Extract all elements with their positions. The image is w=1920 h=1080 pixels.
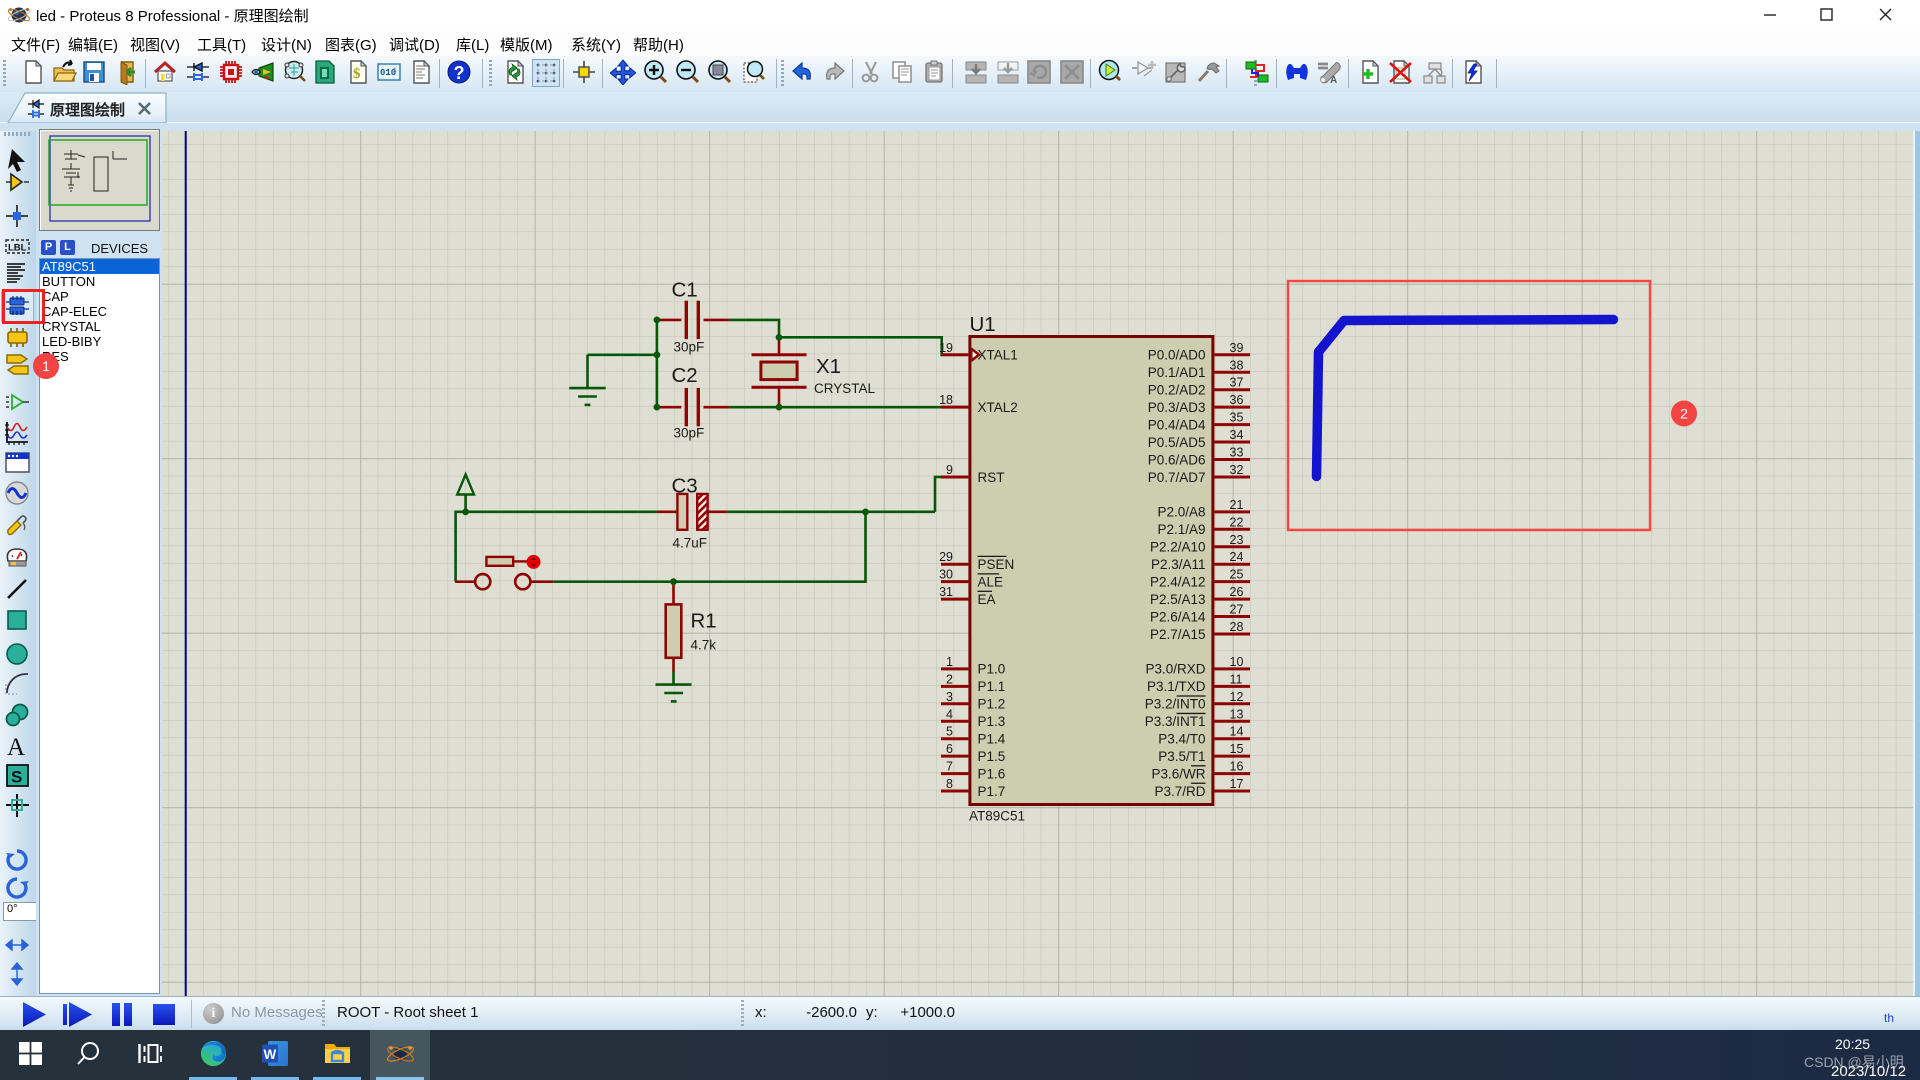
devices list [39, 258, 160, 994]
svg-text:A: A [1330, 75, 1337, 85]
svg-text:P3.1/TXD: P3.1/TXD [1147, 679, 1206, 694]
svg-text:CRYSTAL: CRYSTAL [814, 381, 876, 396]
svg-text:34: 34 [1230, 428, 1244, 442]
annotation blue stroke [1317, 320, 1614, 477]
svg-text:P1.7: P1.7 [978, 784, 1006, 799]
svg-text:P0.5/AD5: P0.5/AD5 [1148, 435, 1206, 450]
sheet border [185, 131, 187, 996]
svg-text:14: 14 [1230, 725, 1244, 739]
svg-text:P2.0/A8: P2.0/A8 [1157, 505, 1205, 520]
svg-text:U1: U1 [970, 313, 996, 336]
svg-text:W: W [264, 1047, 277, 1062]
wire [779, 337, 966, 354]
wire [588, 353, 657, 356]
annotation circle 2 [1671, 401, 1697, 427]
node [654, 317, 661, 324]
wire [464, 495, 467, 512]
svg-text:10: 10 [1230, 655, 1244, 669]
svg-text:36: 36 [1230, 393, 1244, 407]
svg-text:24: 24 [1230, 550, 1244, 564]
wire [672, 658, 675, 672]
svg-text:XTAL1: XTAL1 [978, 348, 1018, 363]
svg-text:38: 38 [1230, 358, 1244, 372]
svg-text:P1.4: P1.4 [978, 732, 1006, 747]
svg-text:2: 2 [1680, 406, 1688, 422]
pin 17 P3.7/RD [1154, 777, 1250, 799]
svg-text:3: 3 [946, 690, 953, 704]
pin 2 P1.1 [941, 672, 1005, 694]
svg-text:11: 11 [1230, 672, 1243, 686]
devices header [39, 237, 158, 258]
svg-text:P3.3/INT1: P3.3/INT1 [1145, 714, 1206, 729]
pin 1 P1.0 [941, 655, 1005, 677]
pin 37 P0.2/AD2 [1148, 376, 1250, 398]
pin 38 P0.1/AD1 [1148, 358, 1250, 380]
svg-text:$: $ [353, 66, 361, 82]
svg-text:C1: C1 [672, 279, 698, 302]
svg-text:17: 17 [1230, 777, 1244, 791]
svg-text:P0.2/AD2: P0.2/AD2 [1148, 383, 1206, 398]
svg-text:30pF: 30pF [674, 340, 705, 355]
svg-text:RST: RST [978, 470, 1005, 485]
svg-text:P2.1/A9: P2.1/A9 [1157, 522, 1205, 537]
svg-text:P3.0/RXD: P3.0/RXD [1145, 662, 1205, 677]
svg-text:?: ? [454, 63, 465, 83]
svg-text:P3.6/WR: P3.6/WR [1151, 766, 1205, 781]
node [462, 508, 469, 515]
svg-text:EA: EA [978, 592, 996, 607]
svg-text:7: 7 [946, 760, 953, 774]
pin 18 XTAL2 [939, 393, 1018, 415]
svg-text:30: 30 [939, 568, 953, 582]
pin 14 P3.4/T0 [1158, 725, 1250, 747]
wire [674, 512, 866, 582]
wire [586, 355, 589, 388]
svg-text:2: 2 [946, 672, 953, 686]
ground [656, 685, 692, 702]
svg-text:LBL: LBL [8, 243, 27, 254]
pin 21 P2.0/A8 [1157, 498, 1250, 520]
wire [729, 320, 779, 337]
svg-text:23: 23 [1230, 533, 1244, 547]
svg-text:P0.0/AD0: P0.0/AD0 [1148, 348, 1206, 363]
pin 10 P3.0/RXD [1145, 655, 1250, 677]
svg-text:XTAL2: XTAL2 [978, 400, 1018, 415]
pin 36 P0.3/AD3 [1148, 393, 1250, 415]
pin 13 P3.3/INT1 [1145, 707, 1250, 729]
overview window [39, 129, 160, 231]
button [455, 555, 553, 589]
svg-text:13: 13 [1230, 707, 1244, 721]
pin 28 P2.7/A15 [1150, 620, 1250, 642]
svg-text:A: A [7, 734, 25, 759]
power VCC arrow [457, 475, 474, 495]
svg-text:C3: C3 [672, 475, 698, 498]
svg-text:P1.2: P1.2 [978, 697, 1006, 712]
capacitor C1 [657, 301, 730, 339]
svg-text:27: 27 [1230, 603, 1244, 617]
svg-text:4.7k: 4.7k [691, 638, 717, 653]
svg-text:35: 35 [1230, 411, 1244, 425]
svg-text:P3.7/RD: P3.7/RD [1154, 784, 1205, 799]
svg-text:P3.5/T1: P3.5/T1 [1158, 749, 1205, 764]
pin 26 P2.5/A13 [1150, 585, 1250, 607]
svg-text:X1: X1 [816, 355, 841, 378]
svg-text:18: 18 [939, 393, 953, 407]
pin 23 P2.2/A10 [1150, 533, 1250, 555]
pin 24 P2.3/A11 [1151, 550, 1250, 572]
svg-text:37: 37 [1230, 376, 1244, 390]
annotation red rectangle [1288, 281, 1650, 530]
pin 34 P0.5/AD5 [1148, 428, 1250, 450]
svg-text:15: 15 [1230, 742, 1244, 756]
pin 6 P1.5 [941, 742, 1005, 764]
svg-text:39: 39 [1230, 341, 1244, 355]
pin 15 P3.5/T1 [1158, 742, 1250, 764]
svg-text:4.7uF: 4.7uF [673, 536, 708, 551]
ground [569, 388, 605, 405]
svg-text:S: S [11, 768, 22, 787]
svg-text:25: 25 [1230, 568, 1244, 582]
pin 27 P2.6/A14 [1150, 603, 1250, 625]
svg-text:P2.4/A12: P2.4/A12 [1150, 574, 1206, 589]
capacitor C3 [657, 494, 727, 530]
svg-text:AT89C51: AT89C51 [969, 809, 1025, 824]
svg-text:1: 1 [946, 655, 953, 669]
pin 9 RST [941, 463, 1005, 485]
pin 39 P0.0/AD0 [1148, 341, 1250, 363]
svg-text:5: 5 [946, 725, 953, 739]
node [776, 334, 783, 341]
svg-text:12: 12 [1230, 690, 1244, 704]
svg-text:6: 6 [946, 742, 953, 756]
svg-text:29: 29 [939, 550, 953, 564]
wire [727, 511, 935, 514]
node [654, 351, 661, 358]
pin 22 P2.1/A9 [1157, 515, 1250, 537]
svg-text:9: 9 [946, 463, 953, 477]
svg-text:28: 28 [1230, 620, 1244, 634]
wire [729, 406, 966, 409]
pin 7 P1.6 [941, 760, 1005, 782]
svg-text:P2.6/A14: P2.6/A14 [1150, 609, 1206, 624]
svg-text:PSEN: PSEN [978, 557, 1015, 572]
svg-text:26: 26 [1230, 585, 1244, 599]
pin 8 P1.7 [941, 777, 1005, 799]
svg-text:21: 21 [1230, 498, 1244, 512]
svg-text:22: 22 [1230, 515, 1244, 529]
pin 31 EA [939, 585, 995, 607]
pin 11 P3.1/TXD [1147, 672, 1250, 694]
node [654, 404, 661, 411]
svg-text:4: 4 [946, 707, 953, 721]
pin 32 P0.7/AD7 [1148, 463, 1250, 485]
svg-text:C2: C2 [672, 364, 698, 387]
svg-text:P0.3/AD3: P0.3/AD3 [1148, 400, 1206, 415]
svg-text:16: 16 [1230, 760, 1244, 774]
svg-text:P0.6/AD6: P0.6/AD6 [1148, 452, 1206, 467]
svg-text:8: 8 [946, 777, 953, 791]
IC U1 AT89C51 [970, 337, 1213, 805]
pin 29 PSEN [939, 550, 1014, 572]
svg-text:P1.3: P1.3 [978, 714, 1006, 729]
svg-text:32: 32 [1230, 463, 1244, 477]
svg-text:30pF: 30pF [674, 426, 705, 441]
svg-text:ALE: ALE [978, 574, 1004, 589]
node [776, 404, 783, 411]
svg-text:31: 31 [939, 585, 953, 599]
resistor R1 [666, 582, 682, 658]
pin 19 XTAL1 [939, 341, 1018, 363]
pin 16 P3.6/WR [1151, 760, 1250, 782]
svg-text:R1: R1 [691, 610, 717, 633]
pin 25 P2.4/A12 [1150, 568, 1250, 590]
pin 4 P1.3 [941, 707, 1005, 729]
svg-text:P2.5/A13: P2.5/A13 [1150, 592, 1206, 607]
pin 3 P1.2 [941, 690, 1005, 712]
svg-text:P0.7/AD7: P0.7/AD7 [1148, 470, 1206, 485]
svg-text:P0.1/AD1: P0.1/AD1 [1148, 365, 1206, 380]
svg-text:33: 33 [1230, 446, 1244, 460]
svg-text:P1.6: P1.6 [978, 766, 1006, 781]
svg-text:P1.0: P1.0 [978, 662, 1006, 677]
node [862, 508, 869, 515]
wire [456, 512, 657, 582]
pin 33 P0.6/AD6 [1148, 446, 1250, 468]
svg-text:P1.1: P1.1 [978, 679, 1006, 694]
svg-text:P2.7/A15: P2.7/A15 [1150, 627, 1206, 642]
svg-text:P2.3/A11: P2.3/A11 [1151, 557, 1206, 572]
pin 5 P1.4 [941, 725, 1006, 747]
wire [656, 320, 659, 407]
wire [935, 477, 966, 512]
svg-text:1: 1 [393, 67, 397, 74]
node [670, 578, 677, 585]
svg-text:P1.5: P1.5 [978, 749, 1006, 764]
svg-text:P0.4/AD4: P0.4/AD4 [1148, 417, 1206, 432]
pin 30 ALE [939, 568, 1003, 590]
svg-text:19: 19 [939, 341, 953, 355]
svg-text:P3.4/T0: P3.4/T0 [1158, 732, 1205, 747]
pin 35 P0.4/AD4 [1148, 411, 1250, 433]
wire [553, 580, 673, 583]
pin 12 P3.2/INT0 [1145, 690, 1250, 712]
svg-text:P3.2/INT0: P3.2/INT0 [1145, 697, 1206, 712]
svg-text:P2.2/A10: P2.2/A10 [1150, 540, 1206, 555]
crystal X1 [752, 337, 807, 407]
capacitor C2 [657, 388, 730, 426]
